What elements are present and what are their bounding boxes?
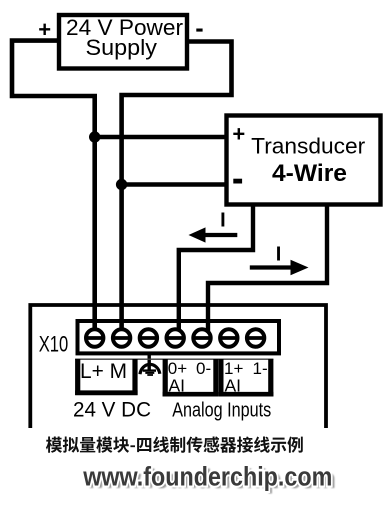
junction dot on M rail: [116, 179, 127, 190]
transducer - pin label: [233, 179, 242, 184]
svg-text:0-: 0-: [196, 359, 211, 378]
svg-text:+: +: [38, 17, 51, 42]
wire stub into terminal 2: [119, 319, 124, 334]
screw terminal 1 (L+): [86, 329, 103, 346]
current arrow I (left, on wire W5): [204, 233, 237, 237]
label strip thin top rule: [75, 358, 273, 360]
caption: 模拟量模块-四线制传感器接线示例: [46, 436, 303, 452]
svg-text:1-: 1-: [253, 359, 268, 378]
screw terminal 4 (0+): [167, 329, 184, 346]
terminal label box 0+ AI 0-: [163, 359, 219, 397]
watermark www.founderchip.com: [82, 461, 335, 494]
wire stub into terminal 1: [92, 319, 97, 334]
svg-text:+: +: [232, 121, 245, 146]
svg-text:AI: AI: [225, 376, 242, 396]
svg-text:AI: AI: [169, 376, 186, 396]
screw terminal 5 (0-): [193, 329, 210, 346]
terminal label box 1+ AI 1-: [219, 359, 274, 397]
screw terminal 3 (ground): [140, 329, 157, 346]
svg-text:Supply: Supply: [86, 35, 158, 60]
current arrow I (right, on wire W6): [250, 265, 292, 269]
screw terminal 2 (M): [113, 329, 130, 346]
junction dot on L+ rail: [89, 131, 100, 142]
wire W3: L+ rail to transducer + pin: [95, 135, 226, 139]
screw terminal 6 (1+): [220, 329, 237, 346]
svg-text:Analog Inputs: Analog Inputs: [172, 400, 271, 422]
terminal label box L+ M: [75, 359, 138, 395]
wire W6: transducer right pin to terminal 5 (0-): [208, 205, 327, 332]
24 V Power Supply box: [59, 15, 187, 69]
wire W5: transducer left pin to terminal 4 (0+): [179, 205, 253, 332]
svg-text:Transducer: Transducer: [251, 134, 365, 159]
svg-text:www.founderchip.com: www.founderchip.com: [82, 461, 332, 491]
svg-text:I: I: [276, 243, 282, 265]
wire stub into terminal 4: [177, 319, 181, 334]
wire W2: power supply - to terminal 2 (M): [122, 42, 232, 333]
wire W1: power supply + to terminal 1 (L+): [12, 41, 95, 332]
svg-text:X10: X10: [39, 331, 68, 356]
svg-text:I: I: [220, 209, 226, 231]
terminal strip X10 box: [78, 321, 280, 353]
analog module outline: [30, 305, 326, 428]
wire W4: M rail to transducer - pin: [122, 182, 226, 186]
svg-text:L+ M: L+ M: [80, 360, 127, 383]
screw terminal 7 (1-): [247, 329, 264, 346]
wire stub into terminal 5: [206, 319, 210, 334]
transducer U1 box: [227, 116, 381, 205]
svg-text:4-Wire: 4-Wire: [272, 160, 347, 187]
power supply - terminal label: [196, 29, 202, 32]
ground symbol (functional earth at terminal 3): [140, 353, 160, 375]
svg-text:24 V DC: 24 V DC: [73, 399, 151, 422]
